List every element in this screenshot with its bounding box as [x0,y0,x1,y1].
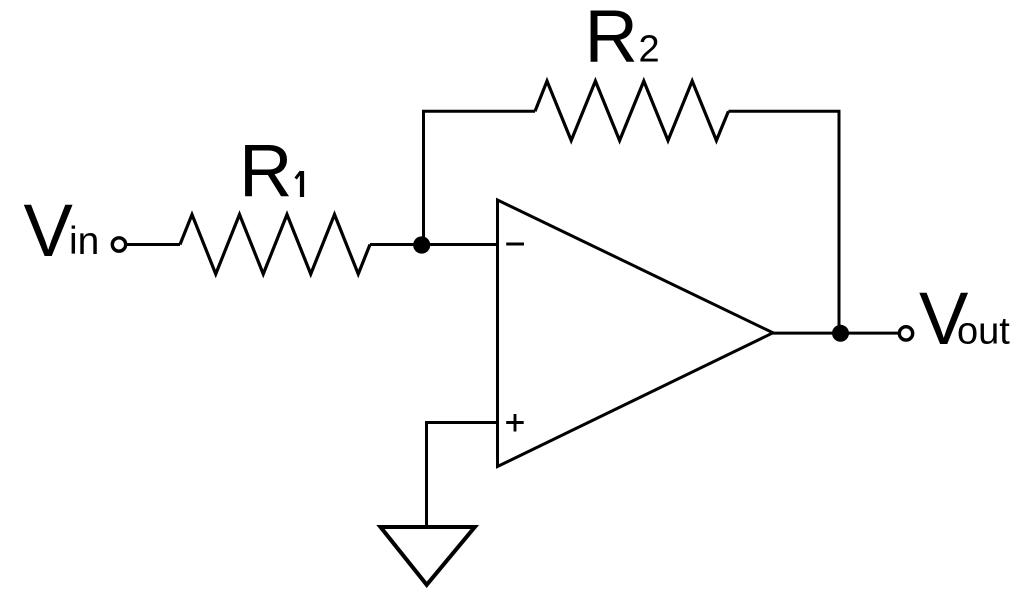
wire [126,243,180,246]
terminal Vout [899,327,912,340]
wire [424,111,536,245]
svg-text:R: R [239,129,292,212]
svg-text:in: in [69,220,99,263]
wire [728,111,839,333]
label R2 [585,0,660,78]
wire [773,332,899,335]
label Vin [24,189,100,272]
op-amp U1 [498,200,774,467]
wire [422,243,498,246]
resistor R2 [535,81,728,141]
ground [381,527,475,585]
terminal Vin [112,238,125,251]
op-amp inverting input marker (-) [506,243,524,246]
svg-text:R: R [585,0,638,78]
node B (output junction) [832,325,849,342]
wire [427,423,498,529]
label R1 [239,129,302,212]
resistor R1 [180,215,370,275]
node A (inverting input junction) [413,236,430,253]
svg-text:out: out [957,311,1010,353]
op-amp non-inverting input marker (+) [506,414,524,432]
wire [370,243,424,246]
svg-text:V: V [24,189,74,272]
svg-text:2: 2 [639,29,660,71]
label Vout [919,277,1010,360]
